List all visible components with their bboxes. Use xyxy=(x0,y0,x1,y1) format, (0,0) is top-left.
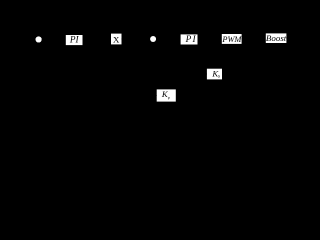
wire: S1 to PI U1 xyxy=(42,38,66,40)
svg-text:s: s xyxy=(218,74,220,80)
svg-text:PI: PI xyxy=(69,35,80,45)
current sensor gain Ks xyxy=(207,69,222,80)
voltage divider gain Kv xyxy=(157,89,176,102)
svg-text:PI: PI xyxy=(185,34,197,44)
wire: X1 to summing junction S2 xyxy=(121,38,150,40)
PI controller U1 (voltage loop) xyxy=(66,35,83,45)
summing junction S2 (current loop) xyxy=(150,36,156,42)
wire: U2 to PWM block xyxy=(198,38,222,40)
wire: reference input to summing junction S1 xyxy=(10,38,36,40)
svg-text:PWM: PWM xyxy=(221,34,242,44)
wire: Boost to output xyxy=(286,37,314,39)
multiplier X1 xyxy=(111,34,122,45)
wire: S2 to PI U2 xyxy=(156,38,180,40)
PI controller U2 (current loop) xyxy=(181,34,198,44)
wire: current feedback tap down to Ks xyxy=(222,38,252,74)
wire: U1 to multiplier X1 xyxy=(83,38,112,40)
svg-text:Boost: Boost xyxy=(266,33,287,43)
wire: Ks to S2 xyxy=(153,42,207,74)
wire: PWM to Boost block xyxy=(242,38,266,40)
wire: Kv to S1 xyxy=(39,42,157,95)
wire: voltage feedback tap down to Kv xyxy=(176,38,296,95)
PWM modulator block xyxy=(221,34,242,44)
summing junction S1 (voltage loop) xyxy=(36,36,42,42)
svg-text:X: X xyxy=(113,34,120,44)
Boost converter block xyxy=(266,33,287,43)
